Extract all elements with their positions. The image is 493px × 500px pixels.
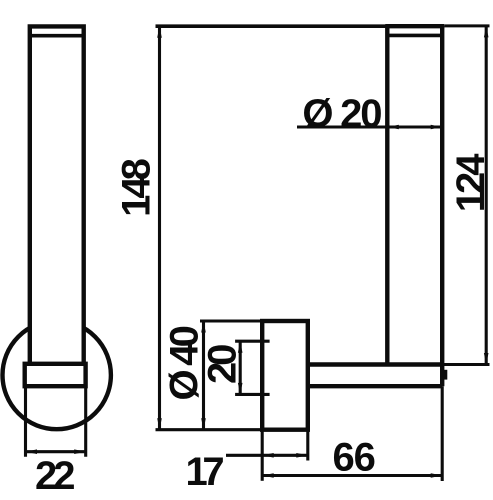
svg-text:17: 17 (185, 450, 223, 494)
leader line for diameter 20 (297, 125, 442, 128)
rod (front view) occluding plate (32, 28, 82, 361)
svg-text:148: 148 (115, 158, 159, 216)
124 bottom extension line (arm top extended) (442, 363, 489, 366)
rod left edge (side view) (385, 26, 389, 364)
dimension line diameter 40 (202, 321, 205, 430)
mounting block (side view) (262, 321, 308, 430)
148 top extension line (156, 24, 388, 28)
block left edge extension down (261, 430, 264, 481)
148 bottom extension line (156, 428, 263, 431)
block top extension line (200, 319, 262, 322)
rod top cap (side view) (385, 24, 444, 28)
svg-text:Ø 20: Ø 20 (302, 92, 381, 136)
124 top extension line (444, 24, 489, 27)
dimension 148 vertical line (158, 26, 161, 430)
wall plate circle (front view) (3, 321, 111, 429)
extension line left of 22 dim (24, 386, 27, 457)
dimension line 66 (262, 474, 442, 477)
svg-text:20: 20 (200, 345, 244, 384)
dimension line 20 (239, 341, 242, 394)
block right edge extension down (306, 430, 309, 461)
extension line right of 22 dim (84, 386, 87, 457)
arm end cap nub (444, 370, 447, 380)
dimension 124 vertical line (485, 26, 488, 365)
20 dim lower extension line (235, 393, 270, 396)
arm bottom line (side view) (308, 384, 442, 388)
rod cap line (side view) (387, 34, 442, 38)
rod cap line (front view) (30, 34, 84, 38)
bracket band (front view) (25, 364, 86, 386)
svg-text:124: 124 (449, 153, 493, 212)
svg-text:66: 66 (332, 435, 375, 479)
rod right edge + arm end (side view) (440, 26, 444, 386)
dimension line 22 (26, 450, 86, 453)
arm top line (side view) (308, 362, 442, 366)
svg-text:22: 22 (35, 454, 74, 498)
20 dim upper extension line (235, 340, 270, 343)
dimension line 17 (226, 454, 308, 457)
arm end extension down (441, 386, 444, 481)
